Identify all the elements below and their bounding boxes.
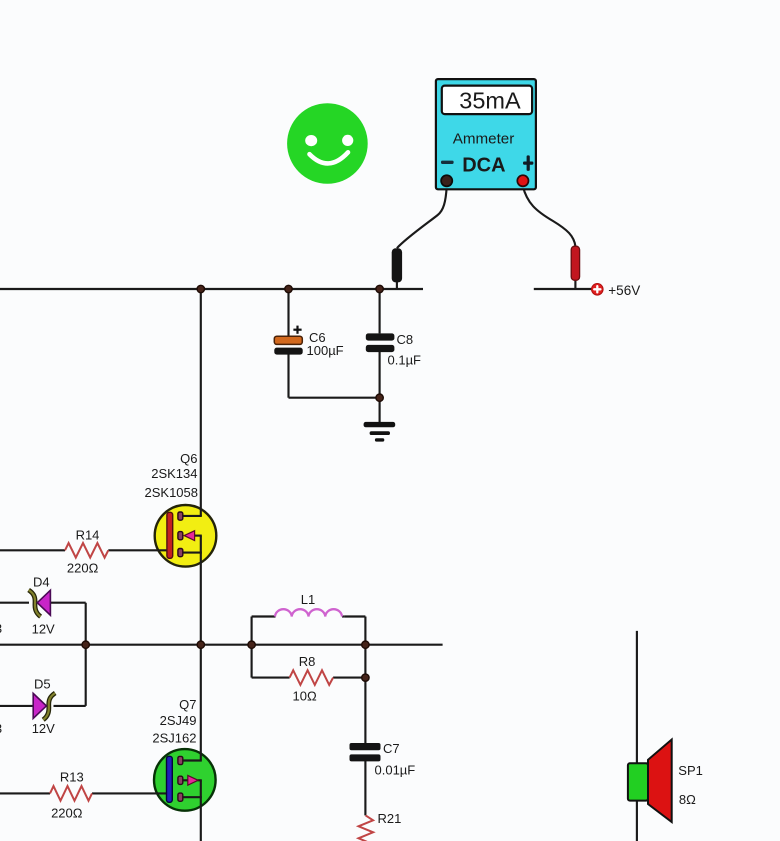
svg-text:8Ω: 8Ω bbox=[679, 792, 696, 807]
svg-text:D5: D5 bbox=[34, 677, 51, 692]
svg-text:C7: C7 bbox=[383, 741, 400, 756]
svg-text:220Ω: 220Ω bbox=[67, 561, 99, 576]
svg-text:R13: R13 bbox=[60, 770, 84, 785]
svg-text:R8: R8 bbox=[299, 654, 316, 669]
svg-text:100µF: 100µF bbox=[307, 343, 344, 358]
svg-text:3: 3 bbox=[0, 621, 2, 636]
svg-text:0.1µF: 0.1µF bbox=[388, 352, 422, 367]
svg-text:L1: L1 bbox=[301, 592, 315, 607]
svg-text:10Ω: 10Ω bbox=[293, 688, 317, 703]
svg-text:35mA: 35mA bbox=[459, 88, 521, 114]
svg-text:+56V: +56V bbox=[608, 283, 640, 298]
svg-text:220Ω: 220Ω bbox=[51, 805, 83, 820]
svg-text:3: 3 bbox=[0, 721, 2, 736]
svg-text:Ammeter: Ammeter bbox=[453, 131, 515, 148]
svg-text:2SK1058: 2SK1058 bbox=[145, 485, 199, 500]
svg-text:D4: D4 bbox=[33, 575, 50, 590]
svg-text:R14: R14 bbox=[76, 527, 100, 542]
svg-text:2SJ162: 2SJ162 bbox=[152, 731, 196, 746]
svg-text:12V: 12V bbox=[32, 721, 55, 736]
svg-text:C8: C8 bbox=[397, 332, 414, 347]
svg-text:2SJ49: 2SJ49 bbox=[160, 713, 197, 728]
svg-text:Q7: Q7 bbox=[179, 697, 196, 712]
svg-text:Q6: Q6 bbox=[180, 451, 197, 466]
svg-text:0.01µF: 0.01µF bbox=[375, 763, 416, 778]
svg-text:12V: 12V bbox=[32, 622, 55, 637]
svg-text:2SK134: 2SK134 bbox=[151, 466, 197, 481]
svg-text:SP1: SP1 bbox=[678, 763, 703, 778]
svg-text:R21: R21 bbox=[378, 811, 402, 826]
svg-text:DCA: DCA bbox=[462, 154, 505, 176]
